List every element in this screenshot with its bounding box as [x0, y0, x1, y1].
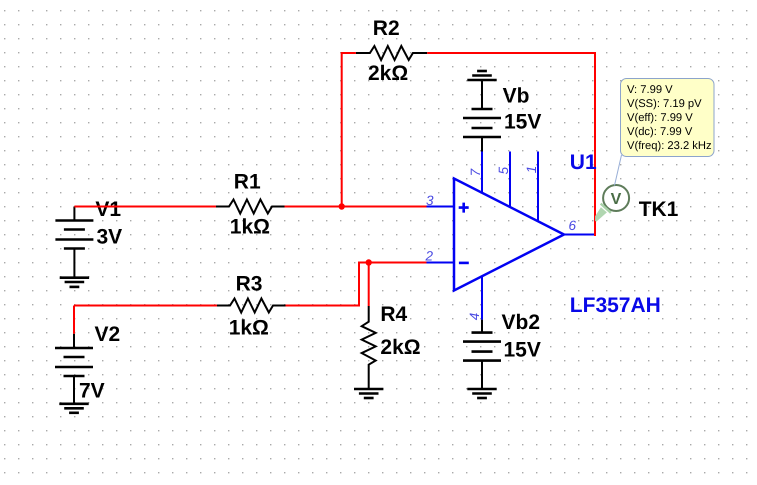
- op-amp U1 triangle: [454, 179, 564, 291]
- svg-text:V: V: [611, 191, 622, 208]
- pin 1 wire: [537, 152, 539, 222]
- resistor R4: [362, 306, 376, 389]
- op-amp plus input: [459, 203, 469, 213]
- svg-text:R3: R3: [236, 273, 263, 296]
- pin 7 wire: [481, 152, 483, 194]
- ground (below V2): [59, 404, 88, 413]
- wire junction to R4: [368, 263, 370, 307]
- wire V2 to R3: [74, 305, 217, 307]
- resistor R1: [216, 200, 285, 214]
- svg-text:15V: 15V: [504, 339, 541, 362]
- svg-text:1: 1: [524, 166, 539, 174]
- svg-text:7V: 7V: [79, 380, 105, 403]
- pin 2 wire: [427, 262, 455, 264]
- wire junction to R2: [342, 53, 356, 208]
- svg-text:1kΩ: 1kΩ: [229, 317, 269, 340]
- svg-text:V(freq): 23.2 kHz: V(freq): 23.2 kHz: [627, 140, 712, 152]
- node junction R1/R2: [339, 203, 345, 209]
- probe TK1 arrow: [595, 204, 611, 222]
- svg-text:Vb: Vb: [503, 85, 530, 108]
- svg-text:15V: 15V: [504, 111, 541, 134]
- pin 6 wire: [564, 234, 594, 236]
- svg-text:V(SS): 7.19 pV: V(SS): 7.19 pV: [627, 98, 702, 110]
- pin 4 wire: [481, 276, 483, 320]
- resistor R3: [217, 299, 286, 313]
- wire R3 to pin2: [286, 263, 427, 306]
- svg-text:V: 7.99 V: V: 7.99 V: [627, 84, 673, 96]
- wire V1 to R1: [74, 206, 216, 208]
- battery V2: [55, 334, 93, 404]
- resistor R2: [356, 46, 427, 60]
- battery Vb: [463, 80, 501, 152]
- svg-text:V(eff): 7.99 V: V(eff): 7.99 V: [627, 112, 693, 124]
- svg-text:TK1: TK1: [639, 198, 679, 221]
- ground (below Vb2): [467, 389, 496, 398]
- ground (above Vb, flipped): [467, 71, 496, 80]
- svg-text:2: 2: [425, 248, 434, 263]
- svg-text:4: 4: [467, 313, 482, 321]
- tooltip box: [621, 79, 715, 157]
- pin 5 wire: [509, 152, 511, 208]
- svg-text:3V: 3V: [97, 226, 123, 249]
- op-amp minus input: [459, 262, 469, 265]
- wire R2 to output: [427, 53, 595, 236]
- svg-text:R4: R4: [380, 303, 407, 326]
- svg-text:V1: V1: [95, 198, 121, 221]
- svg-text:5: 5: [496, 166, 511, 174]
- svg-text:V(dc): 7.99 V: V(dc): 7.99 V: [627, 126, 693, 138]
- tooltip leader line: [615, 155, 622, 186]
- svg-text:LF357AH: LF357AH: [570, 294, 661, 317]
- node junction R4/pin2: [366, 259, 372, 265]
- wire V2 vertical: [73, 306, 75, 334]
- svg-text:2kΩ: 2kΩ: [368, 62, 408, 85]
- svg-text:1kΩ: 1kΩ: [230, 216, 270, 239]
- ground (below V1): [60, 278, 89, 287]
- probe TK1 circle: [603, 185, 629, 211]
- svg-text:3: 3: [426, 193, 434, 208]
- svg-text:6: 6: [569, 218, 577, 233]
- svg-text:R1: R1: [234, 171, 261, 194]
- ground (below R4): [354, 389, 383, 398]
- svg-text:R2: R2: [373, 17, 400, 40]
- svg-text:Vb2: Vb2: [502, 311, 541, 334]
- wire R1 to pin3: [285, 206, 427, 208]
- pin 3 wire: [427, 206, 455, 208]
- svg-text:7: 7: [468, 168, 483, 176]
- svg-text:2kΩ: 2kΩ: [380, 336, 420, 359]
- battery V1: [55, 207, 93, 278]
- svg-text:V2: V2: [95, 323, 121, 346]
- svg-text:U1: U1: [570, 151, 597, 174]
- battery Vb2: [463, 320, 501, 389]
